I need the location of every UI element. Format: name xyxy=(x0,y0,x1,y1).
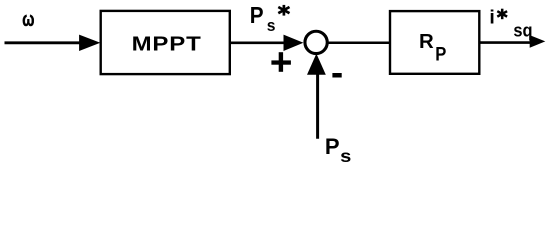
svg-text:P: P xyxy=(435,43,446,65)
svg-text:P: P xyxy=(325,134,340,159)
svg-text:ω: ω xyxy=(22,8,34,31)
svg-text:i: i xyxy=(489,6,494,28)
svg-text:P: P xyxy=(250,2,264,28)
svg-text:R: R xyxy=(419,31,434,53)
svg-text:sq: sq xyxy=(513,20,532,41)
svg-text:s: s xyxy=(267,17,276,35)
svg-text:s: s xyxy=(340,147,351,167)
svg-text:MPPT: MPPT xyxy=(132,33,202,56)
